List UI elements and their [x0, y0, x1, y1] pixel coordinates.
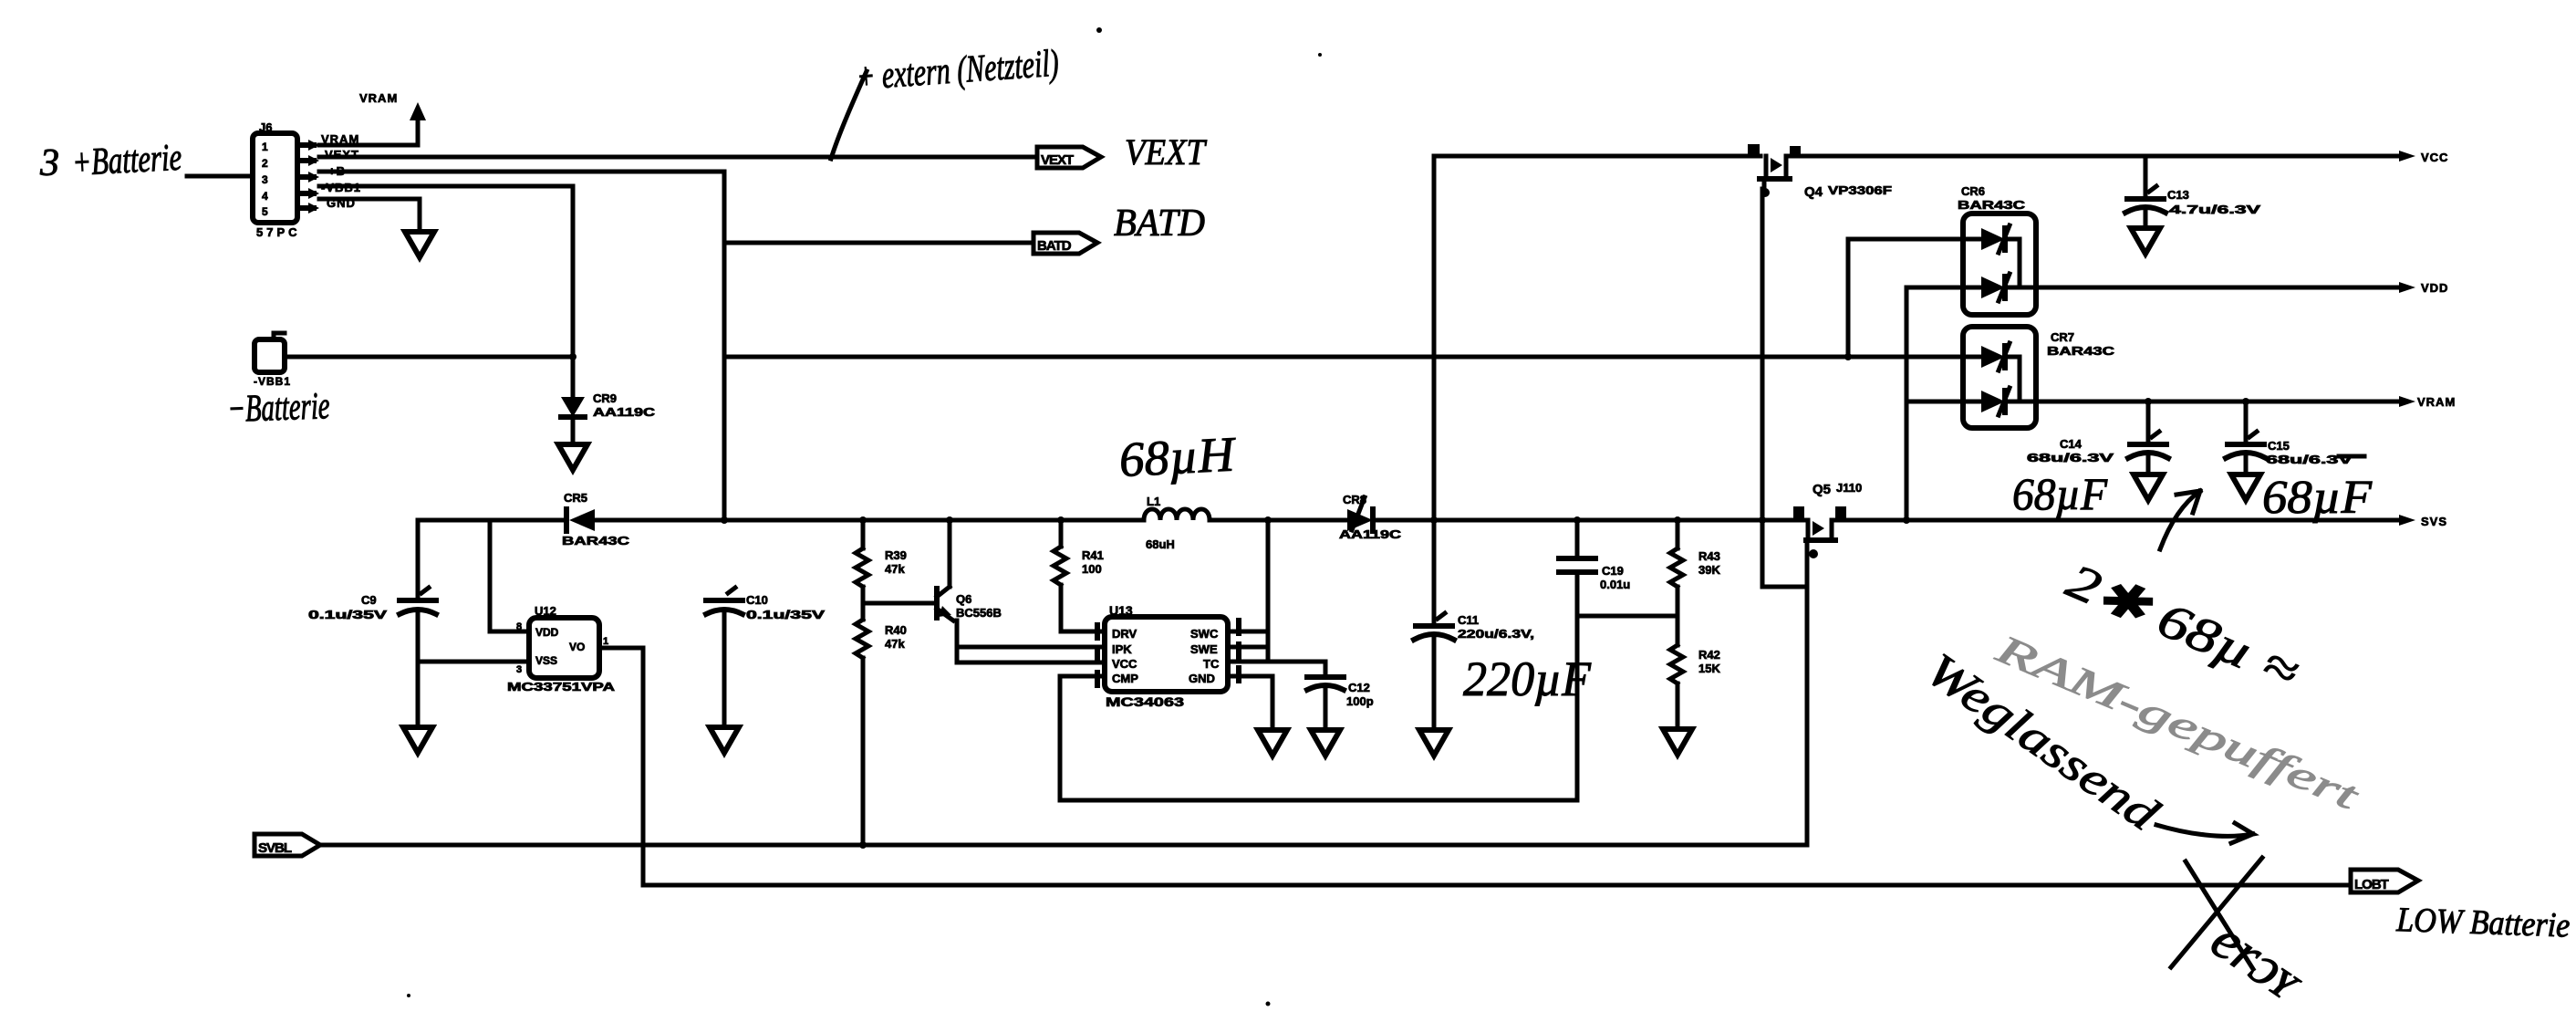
scan speck	[1318, 53, 1322, 57]
svg-text:57PC: 57PC	[256, 225, 301, 239]
wire pin3 +B to vertical	[319, 170, 724, 174]
svg-text:LOW Batterie: LOW Batterie	[2395, 901, 2571, 945]
ground (C14)	[2134, 474, 2163, 500]
svg-text:J110: J110	[1836, 481, 1862, 495]
wire VRAM rail	[2020, 400, 2399, 404]
junction node CR7 feed/SVS rail	[1903, 516, 1910, 524]
transistor Q5 J110 switch on SVS rail	[1793, 481, 1862, 558]
svg-text:SWC: SWC	[1190, 627, 1219, 641]
capacitor C19 0.01u	[1559, 520, 1630, 800]
svg-text:BATD: BATD	[1114, 203, 1205, 245]
scan speck	[407, 994, 410, 997]
junction node R40/gate line	[859, 841, 867, 849]
svg-text:C14: C14	[2060, 437, 2083, 451]
svg-text:VO: VO	[569, 641, 585, 653]
net arrow SVS	[2399, 515, 2447, 528]
capacitor C14 68u/6.3V	[2027, 401, 2168, 474]
wire U13 VCC line	[957, 661, 1105, 665]
svg-text:68uH: 68uH	[1146, 537, 1175, 551]
scan speck	[1096, 27, 1102, 33]
svg-text:VCC: VCC	[1112, 657, 1137, 671]
ground (U13 GND)	[1258, 730, 1287, 756]
diode CR5 BAR43C (inline)	[562, 491, 630, 547]
junction node R39/SVS rail	[859, 516, 867, 524]
svg-text:R43: R43	[1698, 549, 1720, 563]
pointer line from +Batterie note to J6	[187, 174, 253, 179]
svg-text:SWE: SWE	[1190, 642, 1218, 656]
svg-text:C15: C15	[2268, 439, 2290, 453]
wire VEXT net	[319, 155, 1037, 160]
svg-text:39K: 39K	[1698, 563, 1720, 577]
junction node -VBB1/pin4	[569, 353, 576, 360]
wire U12 VDD from rail	[490, 520, 529, 631]
resistor R41 100	[1054, 520, 1105, 631]
junction node R43/SVS rail	[1674, 516, 1681, 524]
svg-text:68u/6.3V: 68u/6.3V	[2027, 451, 2114, 464]
svg-text:47k: 47k	[885, 562, 905, 576]
net arrow VCC	[2399, 151, 2448, 164]
wire SVS rail CR5 to L1	[595, 518, 1144, 523]
wire pin1 to VRAM arrow	[319, 143, 418, 148]
wire SVS rail right segment	[1833, 518, 2399, 523]
junction node Q5 gate tie	[1759, 516, 1766, 524]
handwritten note + extern (Netzteil)	[855, 43, 1060, 99]
transistor Q4 VP3306F high-side switch	[1748, 144, 1892, 200]
svg-text:100p: 100p	[1346, 694, 1374, 708]
ground (C12)	[1311, 730, 1340, 756]
wire -VBB1 to pin4 vertical	[285, 355, 573, 360]
junction node C11/SVS	[1430, 516, 1438, 524]
svg-text:TC: TC	[1203, 657, 1220, 671]
junction node CR6 feed/battery line	[1844, 353, 1852, 360]
wire BATD branch	[724, 241, 1034, 245]
svg-text:R41: R41	[1082, 548, 1104, 562]
svg-text:VP3306F: VP3306F	[1828, 183, 1892, 197]
wire pin5 to ground	[319, 197, 420, 202]
handwritten arrow to RAM caps	[2160, 491, 2200, 549]
svg-text:C9: C9	[361, 593, 377, 607]
handwritten note zu Xerox tail	[2200, 908, 2315, 1014]
net arrow VRAM	[2399, 395, 2456, 409]
capacitor C13 4.7u/6.3V	[2125, 156, 2261, 228]
wire VEXT riser to top rail	[1432, 156, 1437, 520]
wire U12 VO output	[599, 648, 643, 885]
svg-text:8: 8	[516, 621, 522, 632]
junction node +B/SVS rail	[721, 516, 728, 524]
ground (R42)	[1663, 729, 1692, 755]
resistor R43 39K	[1670, 520, 1720, 645]
resistor R39 47k	[856, 520, 907, 603]
tag LOWBAT input (bottom left)	[254, 834, 320, 856]
transistor Q6 BC556B	[863, 520, 1002, 662]
svg-text:0.1u/35V: 0.1u/35V	[308, 608, 388, 621]
pointer stroke to VEXT wire	[831, 71, 867, 159]
junction node VEXT riser	[1433, 356, 1435, 358]
inductor L1	[1144, 495, 1210, 551]
svg-text:3: 3	[262, 173, 268, 186]
ground (C13)	[2131, 228, 2160, 254]
svg-text:220u/6.3V,: 220u/6.3V,	[1458, 627, 1534, 641]
svg-text:VRAM: VRAM	[359, 91, 398, 105]
svg-text:4: 4	[262, 190, 268, 203]
svg-text:CR5: CR5	[564, 491, 587, 505]
svg-text:C12: C12	[1348, 681, 1370, 694]
handwritten note 3 +Batterie	[39, 137, 182, 184]
capacitor C15 68u/6.3V	[2226, 401, 2353, 474]
svg-text:VEXT: VEXT	[1041, 152, 1074, 168]
wire U13 CMP feedback	[1060, 676, 1577, 800]
svg-text:BAR43C: BAR43C	[2047, 344, 2115, 358]
junction nodes VRAM caps	[2145, 398, 2152, 405]
junction node Q6 collector/SVS rail	[946, 516, 953, 524]
capacitor C12 100p	[1307, 677, 1374, 730]
junction node R41/SVS rail	[1057, 516, 1065, 524]
svg-text:VDD: VDD	[2421, 281, 2448, 295]
wire SVS rail CR8 to Q5	[1373, 518, 1804, 523]
svg-text:BC556B: BC556B	[956, 606, 1002, 620]
svg-text:DRV: DRV	[1112, 627, 1137, 641]
svg-text:5: 5	[262, 205, 268, 218]
svg-text:1: 1	[603, 636, 608, 647]
svg-text:MC33751VPA: MC33751VPA	[507, 680, 616, 693]
svg-text:SVBL: SVBL	[258, 840, 292, 856]
svg-text:3: 3	[39, 142, 59, 184]
wire battery +B rail to CR7	[724, 355, 1963, 360]
svg-text:GND: GND	[1189, 672, 1215, 685]
wire pin4 to CR9	[319, 184, 573, 189]
svg-text:220µF: 220µF	[1463, 652, 1592, 706]
IC U13 MC34063 switching regulator	[1097, 603, 1228, 709]
ground (CR9)	[558, 444, 587, 470]
diode CR9 AA119C	[561, 391, 656, 444]
ground (C15)	[2231, 474, 2260, 500]
handwritten note 2* 68u	[2059, 553, 2307, 700]
svg-text:R42: R42	[1698, 648, 1720, 662]
svg-text:CR9: CR9	[593, 391, 617, 405]
svg-text:CR6: CR6	[1961, 184, 1985, 198]
svg-text:CR7: CR7	[2051, 330, 2074, 344]
connector J6 battery header	[253, 120, 319, 239]
svg-text:68µH: 68µH	[1117, 426, 1238, 487]
svg-text:L1: L1	[1147, 495, 1160, 508]
svg-text:BAR43C: BAR43C	[562, 534, 630, 547]
net arrow VDD	[2399, 281, 2448, 295]
svg-text:1: 1	[262, 141, 268, 153]
svg-text:VRAM: VRAM	[2417, 395, 2456, 409]
svg-text:BATD: BATD	[1037, 238, 1072, 254]
svg-text:IPK: IPK	[1112, 642, 1132, 656]
svg-text:2: 2	[262, 157, 268, 170]
wire U13 IPK line	[957, 645, 1105, 650]
svg-text:68µF: 68µF	[2262, 472, 2373, 524]
wire gate/source tie vertical from Q4	[1761, 189, 1765, 520]
svg-text:−Batterie: −Batterie	[227, 385, 331, 431]
wire vertical +B x794	[722, 172, 727, 520]
wire low battery output line	[643, 883, 2353, 888]
wire U13 TC to C12	[1268, 662, 1325, 677]
wire divider tap	[1577, 614, 1678, 619]
dual diode CR7 BAR43C	[1963, 327, 2115, 428]
dual diode CR6 BAR43C	[1958, 184, 2036, 315]
wire SVS rail left segment	[418, 518, 566, 523]
svg-text:R39: R39	[885, 548, 907, 562]
ground (J6 pin5)	[405, 232, 434, 257]
handwritten note Weglassend	[1916, 643, 2253, 843]
svg-text:VEXT: VEXT	[1125, 131, 1208, 172]
svg-text:Q5: Q5	[1813, 482, 1831, 497]
svg-text:Q6: Q6	[956, 592, 971, 606]
svg-text:C19: C19	[1602, 564, 1624, 578]
ground (C9)	[403, 727, 432, 753]
svg-text:15K: 15K	[1698, 662, 1720, 675]
svg-text:SVS: SVS	[2421, 515, 2447, 528]
svg-text:0.01u: 0.01u	[1600, 578, 1630, 591]
wire U13 GND pin	[1228, 676, 1272, 730]
svg-text:VDD: VDD	[535, 626, 559, 639]
tag LOWBAT output	[2351, 870, 2418, 892]
handwritten cross-out X	[2171, 858, 2262, 969]
junction node U13 switch/SVS rail	[1264, 516, 1272, 524]
svg-text:J6: J6	[259, 120, 272, 134]
capacitor C11 220u/6.3V	[1414, 520, 1534, 730]
capacitor C10 0.1u/35V	[706, 588, 826, 727]
svg-text:U13: U13	[1109, 603, 1133, 618]
wire SVS rail L1 to CR8	[1210, 518, 1347, 523]
svg-text:U12: U12	[535, 604, 556, 618]
svg-text:LOBT: LOBT	[2354, 877, 2389, 892]
wire CR6 d1 anode feed	[1848, 239, 1963, 357]
svg-text:AA119C: AA119C	[593, 405, 656, 419]
svg-text:68µF: 68µF	[2012, 468, 2107, 519]
power arrow VRAM	[359, 91, 426, 145]
svg-text:C13: C13	[2167, 188, 2189, 202]
svg-text:47k: 47k	[885, 637, 905, 651]
handwritten note RAM gepuffert (faint)	[1989, 625, 2367, 819]
scan speck	[1266, 1002, 1271, 1006]
wire Q5 gate network	[1762, 520, 1807, 587]
svg-text:4.7u/6.3V: 4.7u/6.3V	[2169, 203, 2261, 216]
wire VCC top rail	[1434, 154, 1761, 159]
svg-text:VCC: VCC	[2421, 151, 2448, 164]
svg-text:+Batterie: +Batterie	[71, 137, 182, 184]
tag VEXT	[1037, 147, 1101, 168]
svg-text:Q4: Q4	[1804, 184, 1823, 200]
wire U12 VSS to C9 leg	[418, 660, 529, 664]
svg-text:MC34063: MC34063	[1106, 694, 1184, 709]
IC U12 MC33751VPA low-battery detector	[507, 604, 616, 693]
svg-text:C11: C11	[1458, 613, 1479, 627]
svg-text:CMP: CMP	[1112, 672, 1138, 685]
ground (C11)	[1419, 730, 1449, 756]
wire CR6 d2 anode feed from SVS	[1906, 287, 1963, 520]
svg-text:R40: R40	[885, 623, 907, 637]
svg-text:C10: C10	[746, 593, 768, 607]
wire CR7 d4 anode feed	[1906, 400, 1963, 404]
wire U13 switch collector/emitter to rail	[1266, 520, 1271, 662]
connector -VBB1 (battery minus)	[254, 333, 291, 388]
capacitor C9 0.1u/35V	[308, 520, 436, 727]
wire VDD rail	[2020, 286, 2399, 290]
wire gate control line	[320, 843, 1807, 848]
svg-text:100: 100	[1082, 562, 1102, 576]
resistor R40 47k	[856, 603, 907, 845]
svg-text:VSS: VSS	[535, 654, 557, 667]
svg-text:BAR43C: BAR43C	[1958, 198, 2026, 212]
svg-text:CR8: CR8	[1343, 493, 1366, 506]
junction node C19/SVS rail	[1574, 516, 1581, 524]
ground (C10)	[710, 727, 739, 753]
resistor R42 15K	[1670, 645, 1720, 729]
diode CR8 AA119C (inline)	[1339, 493, 1402, 541]
svg-text:3: 3	[516, 664, 522, 675]
svg-text:AA119C: AA119C	[1339, 527, 1402, 541]
svg-text:0.1u/35V: 0.1u/35V	[746, 608, 826, 621]
tag BATD	[1034, 233, 1097, 254]
